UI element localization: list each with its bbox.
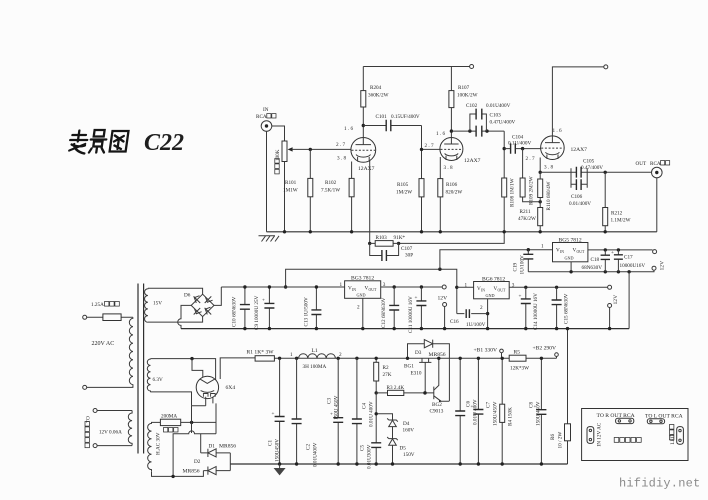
svg-text:10 / 2W: 10 / 2W: [558, 432, 564, 449]
capacitor C104: [504, 148, 540, 150]
svg-text:GND: GND: [357, 293, 366, 298]
svg-text:R211: R211: [520, 209, 531, 215]
svg-text:IN 12V AC: IN 12V AC: [597, 422, 603, 446]
svg-text:+: +: [262, 298, 265, 304]
wire C101 to R105 / V2 grid: [422, 126, 441, 179]
capacitor C3 150U 450V: [337, 358, 339, 464]
+B1 330V terminal: [501, 353, 503, 359]
svg-text:+: +: [611, 250, 614, 256]
grid wire to tube V1: [292, 148, 352, 150]
capacitor C1 150U450V: [279, 358, 281, 464]
svg-text:1: 1: [541, 244, 544, 250]
resistor R1 1K* 3W: [255, 356, 274, 361]
svg-text:12AX7: 12AX7: [571, 147, 588, 153]
svg-text:10000U16V: 10000U16V: [620, 263, 646, 269]
svg-text:C16: C16: [450, 319, 459, 325]
svg-text:+B1 330V: +B1 330V: [474, 348, 498, 354]
wire jack to bus: [266, 131, 268, 232]
chassis ground symbol: [279, 464, 281, 468]
V2 anode lead: [450, 108, 452, 138]
HV ground rail: [230, 463, 567, 465]
svg-text:0.01U400V: 0.01U400V: [486, 103, 511, 109]
svg-text:C106: C106: [571, 194, 583, 200]
BG6 12V output wire: [509, 286, 607, 288]
node 1 / choke L1 3H 100MA / node 2: [278, 357, 281, 360]
svg-text:C4: C4: [362, 403, 368, 409]
svg-text:0.01U400V: 0.01U400V: [313, 442, 319, 467]
feedback vertical from V2 output network: [399, 131, 505, 243]
resistor R107 100K/2W: [449, 91, 454, 108]
svg-text:6.3V: 6.3V: [153, 377, 163, 383]
svg-text:12AX7: 12AX7: [464, 158, 481, 164]
svg-text:220V AC: 220V AC: [92, 341, 115, 347]
svg-text:68N630V: 68N630V: [582, 265, 603, 271]
svg-text:C107: C107: [401, 246, 413, 252]
tube V3 12AX7: [541, 136, 565, 160]
capacitor C11 10000U 16V: [420, 287, 422, 329]
svg-text:100K/2W: 100K/2W: [457, 93, 478, 99]
regulator BG3 7812: [345, 281, 381, 299]
svg-text:OUT: OUT: [636, 161, 647, 167]
resistor R109 2M/2W: [523, 149, 541, 202]
svg-text:OUT: OUT: [369, 288, 377, 292]
svg-text:D1: D1: [209, 444, 216, 450]
output wire to OUT jack: [587, 171, 651, 173]
svg-text:C19: C19: [513, 262, 519, 271]
capacitor C7 150U/450V: [477, 358, 479, 464]
svg-text:12V: 12V: [660, 261, 666, 271]
bridge positive output to rail: [214, 287, 221, 305]
svg-text:15V: 15V: [153, 301, 162, 307]
svg-text:150U/450V: 150U/450V: [536, 401, 542, 426]
svg-text:C12 68N630V: C12 68N630V: [381, 297, 387, 328]
resistor R106 820/2W: [438, 179, 443, 197]
bridge negative output with hop: [178, 305, 192, 328]
wire jack to pot: [272, 126, 285, 141]
capacitor C8 150U/450V: [540, 358, 542, 464]
capacitor C102 (parallel loop): [470, 114, 487, 131]
pass transistor BG1 E310: [422, 358, 429, 362]
svg-text:D3: D3: [415, 350, 422, 356]
svg-text:OUT: OUT: [577, 250, 585, 254]
svg-text:1U/100V: 1U/100V: [520, 255, 526, 275]
svg-text:C101: C101: [376, 114, 388, 120]
V2 cathode lead: [439, 157, 441, 179]
LED indicator header: [670, 434, 676, 444]
svg-text:R204: R204: [370, 85, 382, 91]
svg-text:R110 680/4W: R110 680/4W: [546, 181, 552, 210]
secondary 15V winding: [145, 288, 148, 322]
+B2 290V terminal: [556, 356, 558, 358]
svg-text:R103: R103: [376, 235, 388, 241]
svg-text:C2: C2: [306, 444, 312, 450]
long tap wire from rail to BG5/BG6: [286, 269, 457, 313]
svg-text:150U 450V: 150U 450V: [334, 395, 340, 420]
resistor R3 2.4K: [376, 392, 434, 394]
capacitor C107 30P (feedback): [370, 243, 399, 255]
resistor R5 12K*3W: [509, 355, 526, 361]
capacitor C9 10000U 25V: [268, 287, 270, 329]
svg-text:+: +: [471, 404, 474, 410]
svg-text:C1: C1: [268, 440, 274, 446]
svg-text:12V: 12V: [438, 296, 448, 302]
TO output-board label: [86, 416, 92, 423]
unregulated rail: [221, 286, 344, 288]
svg-text:+: +: [519, 294, 522, 300]
heater winding 6.3V: [147, 359, 150, 392]
svg-text:0.47/400V: 0.47/400V: [581, 165, 603, 171]
svg-text:R1 1K* 3W: R1 1K* 3W: [247, 350, 275, 356]
svg-text:1 . 6: 1 . 6: [436, 131, 445, 137]
title 麦景图 C22 (calligraphic): [68, 130, 128, 154]
resistor R212 1.1M/2W: [604, 172, 606, 232]
HV winding bottom return: [152, 471, 204, 477]
svg-text:C22: C22: [144, 130, 184, 156]
svg-text:91K*: 91K*: [394, 235, 406, 241]
cathode output wire: [540, 171, 571, 173]
zener D4 160V: [387, 418, 398, 421]
regulator BG5 7812: [553, 243, 588, 262]
svg-text:820/2W: 820/2W: [446, 190, 463, 196]
svg-text:200MA: 200MA: [161, 414, 177, 420]
svg-text:BG3 7812: BG3 7812: [351, 276, 374, 282]
svg-text:R3 2.4K: R3 2.4K: [387, 385, 405, 391]
svg-text:D5: D5: [400, 446, 407, 452]
svg-text:C18: C18: [591, 257, 600, 263]
D1/D2 output junction to HV ground rail: [229, 453, 231, 471]
svg-text:R107: R107: [458, 85, 470, 91]
svg-text:360K/2W: 360K/2W: [368, 93, 389, 99]
capacitor C6 0.01U 400V: [459, 358, 461, 464]
svg-text:IN: IN: [481, 289, 485, 293]
svg-text:1U/100V: 1U/100V: [466, 322, 486, 328]
IN RCA jack: [261, 121, 272, 132]
capacitor C19 1U/100V: [527, 250, 529, 272]
svg-text:C14 10000U 16V: C14 10000U 16V: [533, 293, 539, 330]
6X4 pin wiring box: [173, 403, 216, 476]
wire gnd down to regulator rail end: [628, 272, 630, 329]
potentiometer 100K: [282, 141, 287, 162]
svg-text:1.1M/2W: 1.1M/2W: [611, 218, 631, 224]
capacitor C17 10000U16V: [617, 250, 619, 272]
svg-text:6X4: 6X4: [226, 385, 236, 391]
BG6 ground lead: [487, 299, 489, 329]
diode D3 MR856 bypass loop: [408, 344, 450, 401]
svg-text:C15 68N630V: C15 68N630V: [564, 293, 570, 324]
resistor R103 91K* (feedback): [368, 242, 371, 245]
svg-text:160V: 160V: [403, 428, 415, 434]
svg-text:2 . 7: 2 . 7: [425, 143, 434, 149]
svg-text:R108 1M/1W: R108 1M/1W: [510, 178, 516, 207]
svg-text:150U/450V: 150U/450V: [493, 401, 499, 426]
svg-text:C3: C3: [327, 398, 333, 404]
tube V2 12AX7: [440, 138, 463, 161]
svg-text:E310: E310: [411, 371, 422, 377]
svg-text:27K: 27K: [383, 372, 392, 378]
svg-text:1: 1: [465, 282, 468, 288]
svg-text:30P: 30P: [405, 253, 413, 259]
svg-text:GND: GND: [486, 293, 495, 298]
svg-text:MR856: MR856: [219, 444, 236, 450]
primary winding 220V: [129, 317, 133, 386]
12V 0.06A indicator winding: [93, 409, 97, 413]
svg-text:C9 10000U 25V: C9 10000U 25V: [254, 295, 260, 330]
svg-text:3 . 8: 3 . 8: [337, 156, 346, 162]
svg-text:1M1W: 1M1W: [283, 188, 298, 194]
15V bottom wire to bridge: [148, 317, 203, 323]
svg-text:IN: IN: [560, 250, 564, 254]
capacitor C101: [363, 125, 421, 127]
svg-text:0.1U/400V: 0.1U/400V: [508, 141, 531, 147]
V1 anode lead: [362, 107, 364, 138]
svg-text:150V: 150V: [403, 452, 415, 458]
svg-text:D6: D6: [184, 293, 191, 299]
svg-text:R109 2M/2W: R109 2M/2W: [529, 176, 535, 205]
svg-text:R102: R102: [325, 180, 337, 186]
svg-text:IN: IN: [263, 107, 269, 113]
svg-text:BG5 7812: BG5 7812: [559, 237, 582, 243]
svg-text:1 . 6: 1 . 6: [553, 128, 562, 134]
resistor R4 150K: [501, 358, 503, 464]
capacitors C105 / C106 output coupling pair: [571, 168, 587, 188]
svg-text:12V 0.06A: 12V 0.06A: [99, 430, 122, 436]
svg-text:2: 2: [357, 305, 360, 311]
OUT jack to ground bus: [656, 178, 658, 232]
resistor R204 360K/2W: [361, 91, 366, 107]
svg-text:RCA: RCA: [650, 161, 661, 167]
svg-text:2: 2: [480, 305, 483, 311]
HV winding H.AC 30V: [148, 423, 152, 471]
IN 12V AC header: [597, 422, 603, 446]
svg-text:BG6 7812: BG6 7812: [482, 276, 505, 282]
svg-text:C11 10000U 16V: C11 10000U 16V: [408, 296, 414, 333]
svg-text:R212: R212: [611, 211, 623, 217]
resistor R101 1M1W: [309, 149, 311, 231]
earth ground symbol: [259, 236, 280, 242]
B+ rail from 6X4: [220, 358, 255, 379]
svg-text:R2: R2: [383, 365, 389, 371]
regulator BG6 7812: [457, 286, 474, 288]
output display board box: [582, 409, 688, 461]
resistor R102 7.5K/1W: [351, 162, 353, 232]
V1 cathode feedback wire: [369, 160, 371, 243]
svg-text:0.01U 400V: 0.01U 400V: [369, 401, 375, 427]
capacitor C4 0.01U 400V: [356, 358, 358, 464]
svg-text:R5: R5: [514, 350, 521, 356]
capacitor C5 0.01U300V: [375, 393, 377, 464]
svg-text:D4: D4: [403, 421, 410, 427]
heater bottom wire: [151, 392, 192, 406]
diode D2 MR856: [203, 470, 230, 472]
tube V1 12AX7: [351, 138, 376, 163]
svg-text:L1: L1: [312, 348, 318, 354]
fuse 1.25A: [83, 315, 87, 319]
svg-text:BG1: BG1: [404, 364, 414, 370]
svg-text:TO: TO: [86, 416, 92, 423]
svg-text:H.AC 30V: H.AC 30V: [155, 432, 161, 455]
svg-text:C102: C102: [466, 103, 478, 109]
transformer T1 core: [138, 284, 144, 454]
svg-text:MR856: MR856: [429, 352, 446, 358]
zener branch wire: [376, 414, 392, 464]
ground bus: [267, 231, 657, 233]
resistor R2 27K: [375, 358, 377, 393]
svg-text:12K*3W: 12K*3W: [510, 366, 529, 372]
capacitor C18 68N630V: [604, 250, 606, 272]
svg-text:C13 1U/500V: C13 1U/500V: [304, 297, 310, 327]
regulator ground rail: [181, 328, 629, 330]
BG5 12V output wire: [588, 249, 653, 251]
svg-text:OUT: OUT: [498, 289, 506, 293]
svg-text:+: +: [272, 411, 275, 417]
svg-text:2 . 7: 2 . 7: [526, 156, 535, 162]
V3 cathode lead: [539, 158, 541, 173]
svg-text:+: +: [415, 295, 418, 301]
svg-text:0.47U/400V: 0.47U/400V: [490, 120, 516, 126]
top B+ bus 1: [363, 66, 470, 68]
svg-text:hifidiy.net: hifidiy.net: [619, 476, 700, 490]
svg-text:3 . 8: 3 . 8: [544, 165, 553, 171]
svg-text:3H 100MA: 3H 100MA: [303, 364, 327, 370]
BG5 ground wire: [528, 270, 654, 272]
V2 anode wire to C102/C103: [451, 130, 504, 132]
capacitor C14 10000U 16V: [525, 287, 527, 328]
BG3 12V output rail: [381, 286, 443, 288]
svg-text:150U450V: 150U450V: [275, 439, 281, 462]
svg-text:C105: C105: [583, 159, 595, 165]
svg-text:0.15UF/400V: 0.15UF/400V: [391, 114, 420, 120]
resistor R6 10/2W to HV ground: [567, 329, 569, 464]
resistor R110 680/4W: [538, 179, 543, 198]
svg-text:100K: 100K: [275, 149, 281, 161]
svg-text:1.25A: 1.25A: [91, 302, 104, 308]
svg-text:C10 68N630V: C10 68N630V: [232, 296, 238, 327]
resistor R211 47K/2W: [538, 208, 543, 226]
zener D5 150V: [387, 437, 398, 440]
transistor BG2 C9013: [433, 387, 435, 400]
resistor R108 1M/1W: [502, 178, 507, 197]
capacitor C10 68N630V: [244, 287, 246, 329]
svg-text:R106: R106: [446, 182, 458, 188]
svg-text:0.01U 400V: 0.01U 400V: [473, 399, 479, 425]
capacitor C12 68N630V: [393, 287, 395, 329]
svg-text:7.5K/1W: 7.5K/1W: [321, 188, 340, 194]
svg-text:C8: C8: [529, 402, 535, 408]
svg-text:IN: IN: [352, 288, 356, 292]
15V top wire to bridge: [148, 288, 203, 294]
bridge rectifier D6: [191, 294, 214, 316]
svg-text:1: 1: [340, 282, 343, 288]
heater top wire to 6X4: [151, 359, 216, 381]
svg-text:GND: GND: [565, 256, 574, 261]
svg-text:RCA: RCA: [256, 114, 267, 120]
capacitor C16 1U/100V: [457, 313, 488, 315]
svg-text:R101: R101: [285, 180, 297, 186]
svg-text:C9013: C9013: [430, 409, 444, 415]
svg-text:0.01/400V: 0.01/400V: [569, 201, 591, 207]
svg-text:BG2: BG2: [432, 402, 442, 408]
capacitor C13 1U/500V: [315, 287, 317, 329]
svg-text:R4 150K: R4 150K: [508, 407, 514, 426]
svg-text:1: 1: [290, 352, 293, 358]
svg-text:+B2 290V: +B2 290V: [533, 346, 557, 352]
wire pot bottom to bus: [284, 162, 286, 232]
fuse 200MA: [152, 421, 217, 424]
wire A to BG5 input: [440, 250, 553, 270]
svg-text:1 . 6: 1 . 6: [344, 126, 353, 132]
svg-text:MR856: MR856: [183, 469, 200, 475]
12V output terminals (right pair of BG6): [613, 295, 619, 305]
capacitor C15 68N630V: [556, 287, 558, 328]
V3 anode lead + top B+ bus 2: [552, 67, 604, 136]
svg-text:47K/2W: 47K/2W: [518, 216, 536, 222]
svg-text:1M/2W: 1M/2W: [396, 190, 412, 196]
svg-text:C103: C103: [490, 113, 502, 119]
OUT RCA jack: [652, 167, 663, 178]
svg-text:C7: C7: [486, 402, 492, 408]
diode D1 MR856: [201, 434, 231, 453]
svg-text:3 . 8: 3 . 8: [444, 165, 453, 171]
svg-text:C5: C5: [360, 445, 366, 451]
6X4 left plate jog: [192, 359, 203, 378]
BG3 ground lead: [362, 298, 364, 328]
capacitor C2 0.01U400V: [296, 358, 298, 464]
svg-text:12V: 12V: [613, 295, 619, 305]
svg-text:0.01U300V: 0.01U300V: [367, 444, 373, 469]
resistor R105 1M/2W: [419, 179, 424, 197]
svg-text:2: 2: [339, 352, 342, 358]
svg-text:2 . 7: 2 . 7: [336, 142, 345, 148]
rectifier tube 6X4: [196, 376, 218, 398]
svg-text:D2: D2: [194, 459, 201, 465]
svg-text:R6: R6: [550, 434, 556, 440]
svg-text:C17: C17: [624, 255, 633, 261]
svg-text:R105: R105: [397, 182, 409, 188]
board name 输出显示板: [614, 438, 619, 443]
svg-text:LED: LED: [670, 434, 676, 444]
capacitor C103 (series): [476, 126, 482, 137]
svg-text:12AX7: 12AX7: [358, 166, 375, 172]
